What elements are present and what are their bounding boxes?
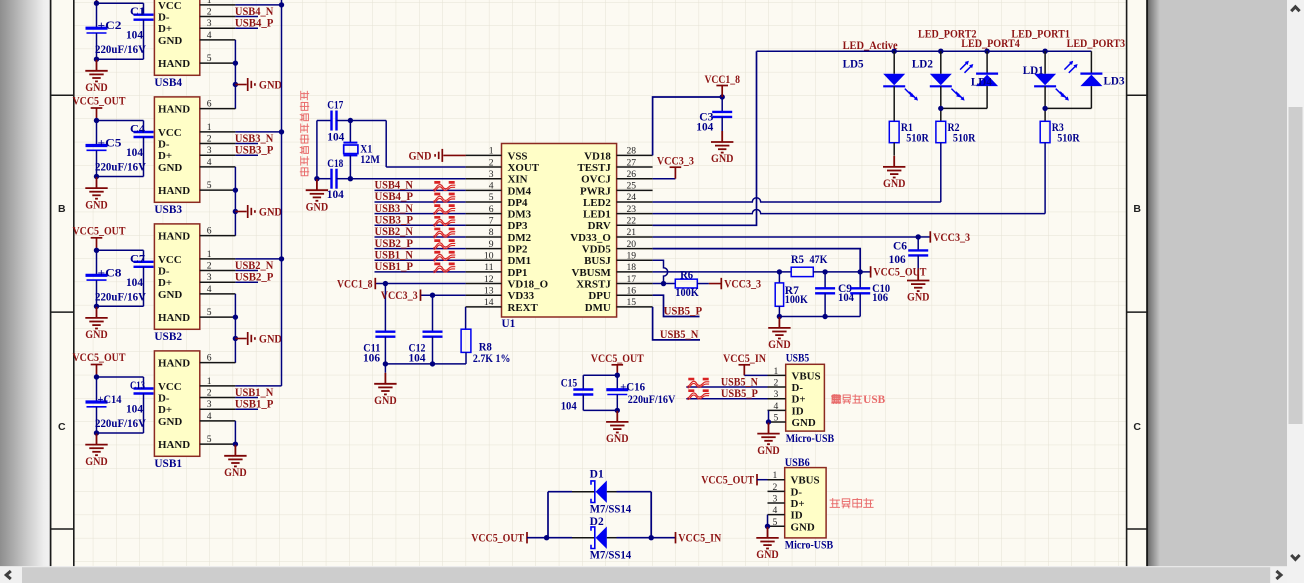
svg-text:3: 3 [774,389,779,400]
svg-text:100K: 100K [675,287,699,299]
svg-text:USB3_P: USB3_P [235,144,274,156]
svg-text:26: 26 [627,169,637,180]
svg-text:1: 1 [207,122,212,133]
svg-text:2: 2 [774,378,779,389]
svg-text:25: 25 [627,181,637,192]
svg-text:B: B [1133,203,1141,215]
svg-text:GND: GND [158,289,182,301]
svg-text:220uF/16V: 220uF/16V [95,418,147,430]
svg-text:VCC1_8: VCC1_8 [337,278,373,290]
svg-text:LED1: LED1 [583,209,611,221]
svg-text:HAND: HAND [158,104,190,116]
svg-text:510R: 510R [1057,133,1080,145]
svg-text:GND: GND [791,521,815,533]
svg-text:D+: D+ [792,394,806,406]
svg-text:USB3_N: USB3_N [235,133,274,145]
svg-text:VCC5_OUT: VCC5_OUT [701,475,754,487]
svg-text:14: 14 [484,297,494,308]
svg-text:15: 15 [627,297,637,308]
svg-text:104: 104 [696,122,713,134]
svg-text:HAND: HAND [158,439,190,451]
svg-text:3: 3 [489,169,494,180]
svg-text:104: 104 [409,353,426,365]
svg-text:11: 11 [484,262,493,273]
svg-text:LD3: LD3 [1104,76,1125,88]
svg-text:DM2: DM2 [508,232,532,244]
svg-text:USB5_P: USB5_P [721,388,758,400]
svg-text:D+: D+ [158,150,172,162]
svg-text:Micro-USB: Micro-USB [786,433,835,445]
svg-text:GND: GND [374,395,397,407]
svg-text:C6: C6 [893,241,907,253]
svg-text:REXT: REXT [508,302,539,314]
svg-text:VCC3_3: VCC3_3 [657,156,694,168]
svg-text:VCC3_3: VCC3_3 [381,290,418,302]
svg-text:5: 5 [207,434,212,445]
svg-text:+C16: +C16 [620,382,645,394]
svg-text:104: 104 [327,189,344,201]
svg-text:18: 18 [627,262,637,273]
svg-text:USB4_N: USB4_N [235,6,274,18]
svg-text:USB5_N: USB5_N [660,329,699,341]
svg-text:GND: GND [85,329,108,341]
svg-text:2: 2 [207,388,212,399]
svg-text:USB2_N: USB2_N [235,260,274,272]
svg-text:TESTJ: TESTJ [578,162,612,174]
svg-text:GND: GND [711,153,734,165]
svg-text:6: 6 [489,204,494,215]
svg-text:3: 3 [207,272,212,283]
svg-text:VCC: VCC [158,0,182,12]
svg-text:VCC5_OUT: VCC5_OUT [471,533,524,545]
svg-text:47K: 47K [810,254,828,266]
svg-text:BUSJ: BUSJ [584,255,611,267]
svg-text:3: 3 [773,494,778,505]
svg-text:HAND: HAND [158,185,190,197]
svg-text:VCC5_IN: VCC5_IN [723,353,767,365]
svg-text:2: 2 [207,261,212,272]
svg-text:VCC5_OUT: VCC5_OUT [73,352,126,364]
svg-text:VCC5_OUT: VCC5_OUT [591,353,644,365]
svg-text:6: 6 [207,99,212,110]
svg-text:D+: D+ [791,498,805,510]
svg-text:VCC5_IN: VCC5_IN [678,533,722,545]
svg-text:LD1: LD1 [1023,65,1044,77]
svg-text:1: 1 [207,376,212,387]
svg-text:VBUS: VBUS [791,475,820,487]
svg-text:2.7K 1%: 2.7K 1% [473,353,511,365]
svg-text:21: 21 [627,227,637,238]
svg-text:12: 12 [484,274,494,285]
svg-text:1: 1 [489,146,494,157]
svg-text:100K: 100K [785,294,808,306]
svg-text:VCC1_8: VCC1_8 [704,74,740,86]
svg-text:2: 2 [489,157,494,168]
svg-text:13: 13 [484,285,494,296]
svg-text:D-: D- [158,393,170,405]
svg-text:C: C [1133,421,1141,433]
svg-text:XRSTJ: XRSTJ [576,278,611,290]
svg-text:USB5: USB5 [786,352,810,364]
svg-text:USB: USB [863,394,885,406]
svg-text:24: 24 [627,192,637,203]
svg-text:LED_PORT3: LED_PORT3 [1067,38,1126,50]
svg-text:LED_Active: LED_Active [843,40,898,52]
svg-text:USB2: USB2 [154,331,182,343]
svg-text:3: 3 [207,399,212,410]
svg-text:5: 5 [773,517,778,528]
svg-text:VSS: VSS [508,150,528,162]
svg-text:USB4_P: USB4_P [235,17,274,29]
svg-text:C7: C7 [130,253,145,265]
svg-text:220uF/16V: 220uF/16V [95,162,147,174]
svg-text:LD2: LD2 [912,59,933,71]
svg-text:GND: GND [409,150,432,162]
svg-text:USB4_N: USB4_N [375,180,414,192]
svg-text:VD33_O: VD33_O [570,232,611,244]
svg-text:R8: R8 [479,341,492,353]
svg-text:10: 10 [484,250,494,261]
svg-text:GND: GND [306,201,329,213]
svg-text:C: C [58,421,66,433]
svg-text:D2: D2 [590,516,604,528]
svg-text:GND: GND [757,445,780,457]
svg-text:+C14: +C14 [98,394,122,406]
svg-text:GND: GND [85,82,108,94]
svg-text:R5: R5 [791,254,804,266]
svg-text:GND: GND [224,467,247,479]
svg-text:USB3_N: USB3_N [375,203,414,215]
svg-text:4: 4 [489,181,494,192]
svg-text:8: 8 [489,227,494,238]
svg-text:DP1: DP1 [508,267,528,279]
svg-text:USB1_P: USB1_P [375,261,414,273]
svg-text:GND: GND [158,416,182,428]
svg-text:B: B [58,203,66,215]
svg-text:GND: GND [768,339,791,351]
svg-text:VCC5_OUT: VCC5_OUT [873,267,926,279]
svg-text:7: 7 [489,216,494,227]
svg-text:DPU: DPU [588,290,611,302]
svg-text:GND: GND [158,162,182,174]
svg-text:M7/SS14: M7/SS14 [590,550,632,562]
svg-text:D+: D+ [158,404,172,416]
svg-text:1: 1 [773,470,778,481]
svg-text:ID: ID [791,510,803,522]
svg-text:5: 5 [207,180,212,191]
svg-text:220uF/16V: 220uF/16V [95,291,147,303]
svg-text:DM4: DM4 [508,185,532,197]
svg-text:HAND: HAND [158,231,190,243]
svg-text:USB5_P: USB5_P [664,306,703,318]
svg-text:5: 5 [207,307,212,318]
svg-text:XIN: XIN [508,174,528,186]
svg-text:DMU: DMU [585,302,611,314]
svg-text:GND: GND [907,292,930,304]
svg-text:17: 17 [627,274,637,285]
svg-text:D+: D+ [158,23,172,35]
svg-text:VBUSM: VBUSM [571,267,610,279]
svg-text:3: 3 [207,18,212,29]
svg-text:Micro-USB: Micro-USB [785,539,834,551]
svg-text:VCC3_3: VCC3_3 [724,278,761,290]
svg-text:VCC5_OUT: VCC5_OUT [73,96,126,108]
svg-text:D-: D- [158,12,170,24]
svg-text:USB2_P: USB2_P [235,271,274,283]
svg-text:104: 104 [327,131,344,143]
svg-text:D-: D- [158,266,170,278]
svg-text:5: 5 [207,53,212,64]
svg-text:3: 3 [207,145,212,156]
svg-text:22: 22 [627,216,637,227]
svg-text:OVCJ: OVCJ [581,174,611,186]
svg-text:2: 2 [773,482,778,493]
svg-text:C17: C17 [327,99,343,111]
svg-text:VCC: VCC [158,254,182,266]
svg-text:LD4: LD4 [971,77,992,89]
svg-text:LED_PORT1: LED_PORT1 [1011,28,1070,40]
svg-text:+C5: +C5 [98,138,122,150]
svg-text:PWRJ: PWRJ [580,185,611,197]
svg-text:4: 4 [774,401,779,412]
svg-text:GND: GND [259,80,282,92]
svg-text:VD18_O: VD18_O [508,278,549,290]
svg-text:USB6: USB6 [785,457,810,469]
svg-text:D1: D1 [590,469,604,481]
svg-text:104: 104 [126,404,143,416]
svg-text:USB2_P: USB2_P [375,238,414,250]
svg-text:GND: GND [606,433,629,445]
svg-text:USB1: USB1 [154,458,182,470]
svg-text:C4: C4 [130,124,145,136]
svg-text:GND: GND [259,334,282,346]
svg-text:9: 9 [489,239,494,250]
svg-text:ID: ID [792,405,804,417]
svg-text:C15: C15 [561,377,578,389]
svg-text:4: 4 [773,505,778,516]
svg-text:4: 4 [207,284,212,295]
svg-text:USB3_P: USB3_P [375,215,414,227]
svg-text:GND: GND [756,549,779,561]
svg-text:GND: GND [883,178,906,190]
svg-text:USB5_N: USB5_N [721,376,759,388]
svg-text:6: 6 [207,353,212,364]
svg-text:USB4_P: USB4_P [375,191,414,203]
svg-text:DM1: DM1 [508,255,532,267]
svg-text:GND: GND [85,199,108,211]
svg-text:C18: C18 [327,158,343,170]
svg-text:DP2: DP2 [508,244,528,256]
svg-text:12M: 12M [360,154,380,166]
svg-text:104: 104 [126,147,143,159]
svg-text:510R: 510R [906,133,929,145]
svg-text:R6: R6 [680,270,693,282]
svg-text:104: 104 [126,30,143,42]
svg-text:DP3: DP3 [508,220,529,232]
svg-text:D-: D- [792,382,804,394]
svg-text:C13: C13 [130,380,145,392]
svg-text:C1: C1 [130,6,145,18]
svg-text:DRV: DRV [588,220,611,232]
svg-text:GND: GND [792,417,816,429]
svg-text:+C2: +C2 [98,20,122,32]
svg-text:6: 6 [207,226,212,237]
svg-text:HAND: HAND [158,358,190,370]
svg-text:HAND: HAND [158,312,190,324]
svg-text:M7/SS14: M7/SS14 [590,504,632,516]
svg-text:VD18: VD18 [584,150,611,162]
svg-text:USB2_N: USB2_N [375,226,414,238]
svg-text:GND: GND [158,35,182,47]
svg-text:VBUS: VBUS [792,370,821,382]
svg-text:VCC: VCC [158,381,182,393]
svg-text:USB4: USB4 [154,77,182,89]
svg-text:4: 4 [207,30,212,41]
svg-text:27: 27 [627,157,637,168]
svg-text:104: 104 [561,400,577,412]
svg-text:XOUT: XOUT [508,162,540,174]
svg-text:220uF/16V: 220uF/16V [95,44,147,56]
svg-text:D-: D- [791,486,803,498]
svg-text:510R: 510R [953,133,976,145]
svg-text:VCC: VCC [158,127,182,139]
svg-text:106: 106 [363,353,380,365]
svg-text:GND: GND [85,456,108,468]
svg-text:4: 4 [207,157,212,168]
svg-text:D-: D- [158,139,170,151]
svg-text:1: 1 [774,366,779,377]
svg-text:USB1_P: USB1_P [235,398,274,410]
svg-text:106: 106 [872,292,888,304]
svg-text:GND: GND [259,207,282,219]
svg-text:19: 19 [627,250,637,261]
svg-text:VDD5: VDD5 [582,244,612,256]
svg-text:D+: D+ [158,277,172,289]
svg-text:USB3: USB3 [154,204,182,216]
svg-text:5: 5 [774,413,779,424]
svg-text:VCC3_3: VCC3_3 [933,232,970,244]
svg-text:USB1_N: USB1_N [375,249,414,261]
svg-text:DP4: DP4 [508,197,529,209]
svg-text:2: 2 [207,7,212,18]
svg-text:HAND: HAND [158,58,190,70]
svg-text:+C8: +C8 [98,267,122,279]
svg-text:104: 104 [126,277,143,289]
svg-text:1: 1 [207,0,212,6]
svg-text:5: 5 [489,192,494,203]
svg-text:16: 16 [627,285,637,296]
svg-text:20: 20 [627,239,637,250]
svg-text:2: 2 [207,134,212,145]
svg-text:DM3: DM3 [508,209,532,221]
svg-text:1: 1 [207,249,212,260]
svg-text:U1: U1 [502,318,516,330]
svg-text:23: 23 [627,204,637,215]
svg-text:VD33: VD33 [508,290,535,302]
svg-text:106: 106 [889,254,906,266]
svg-text:LED2: LED2 [583,197,611,209]
svg-text:4: 4 [207,411,212,422]
svg-text:VCC5_OUT: VCC5_OUT [73,225,126,237]
svg-text:220uF/16V: 220uF/16V [628,394,676,406]
svg-text:28: 28 [627,146,637,157]
svg-text:LD5: LD5 [843,59,864,71]
svg-text:USB1_N: USB1_N [235,387,274,399]
